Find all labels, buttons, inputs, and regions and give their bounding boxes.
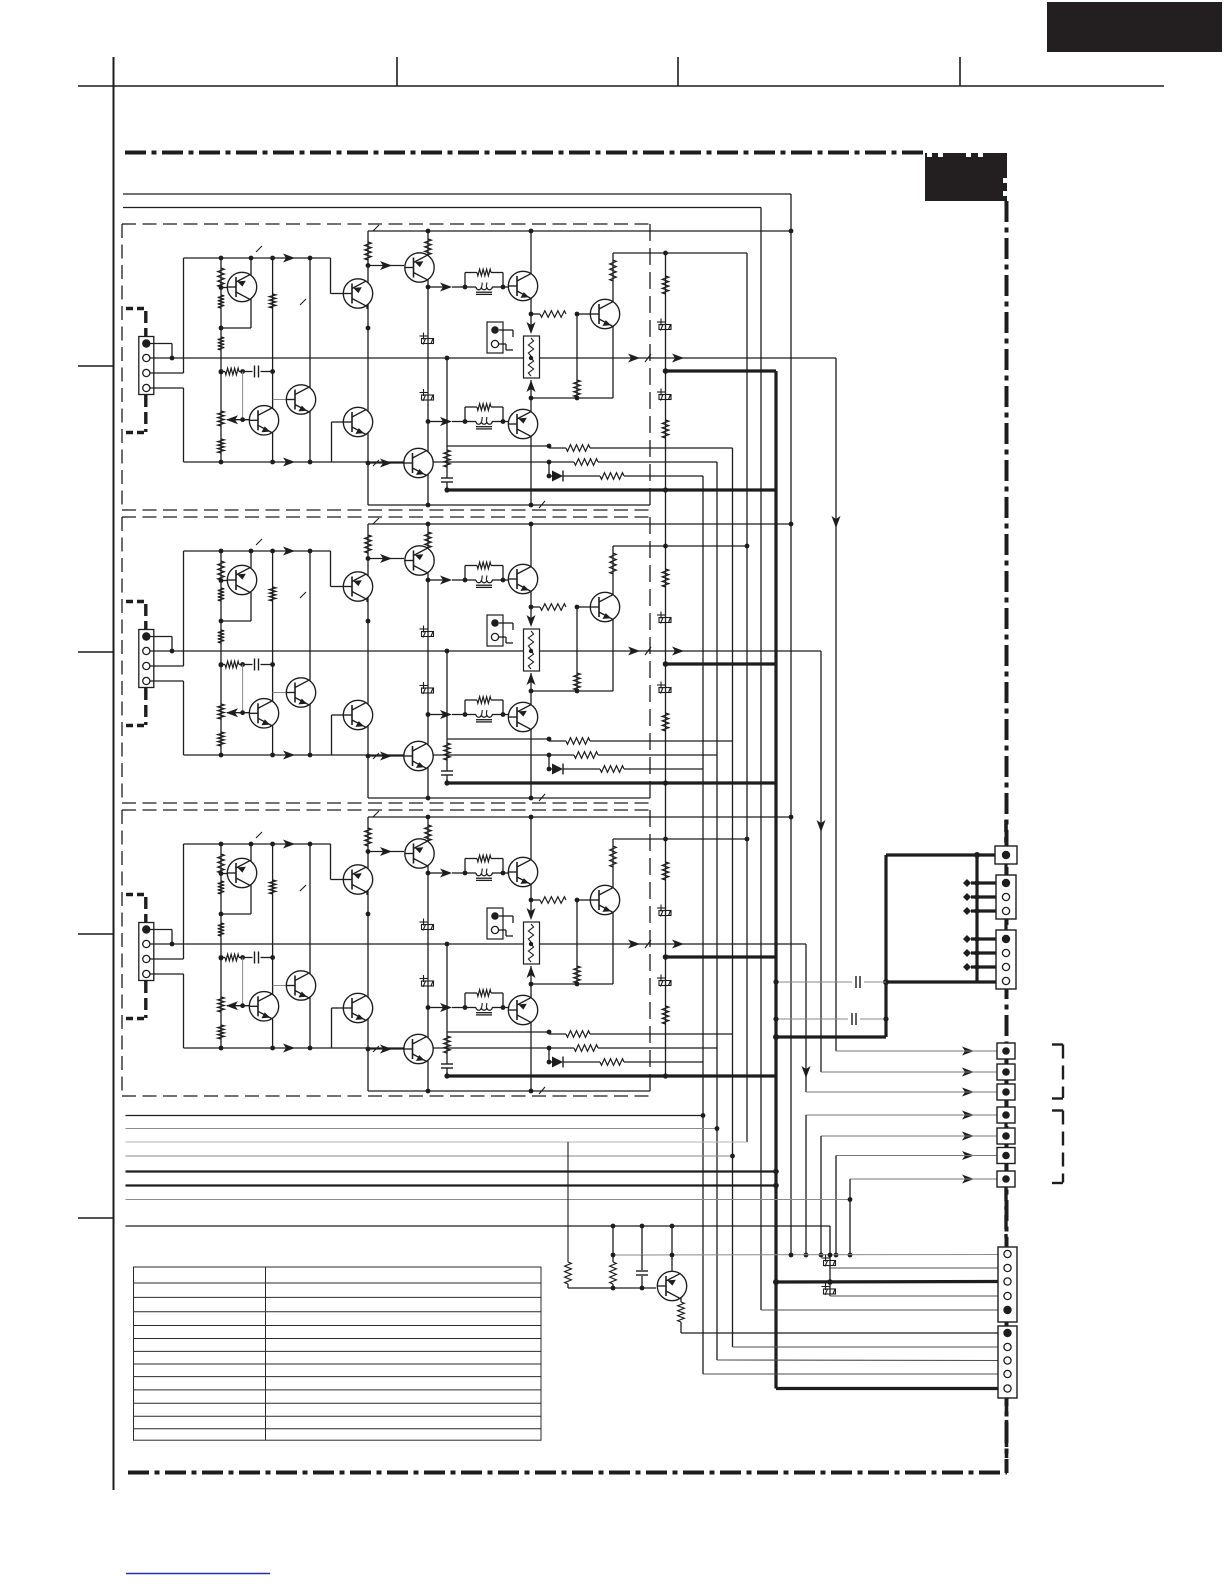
bus stub pin 6 <box>971 951 1000 954</box>
dash-dot stubs above/below connector groups <box>1004 820 1008 843</box>
signal wire to square connector 3 <box>806 1091 962 1093</box>
dash-dot below connector <box>1005 1398 1009 1473</box>
supply rail (top outer 1) <box>123 193 791 195</box>
square connector chain links <box>1004 1059 1007 1065</box>
distribution rail 1 <box>126 1115 704 1117</box>
bus stub pin 7 <box>971 965 1000 968</box>
bus stub pin 4 <box>971 909 1000 912</box>
junction x791/y524 <box>789 522 794 527</box>
channel1 output rail ext <box>660 357 836 359</box>
rail8 tie to Q30 <box>671 1226 673 1255</box>
rail8 tie to C30 <box>641 1226 643 1255</box>
junction y1255 x791 <box>789 1253 794 1258</box>
distribution rail 7 <box>126 1199 851 1201</box>
Q30 emitter out <box>680 1322 682 1333</box>
speaker line column x665 <box>665 253 667 1076</box>
connector CN-B (3 pin) <box>996 875 1016 919</box>
tick mark left 2 <box>78 651 114 653</box>
signal wire to square connector 2 <box>821 1071 962 1073</box>
parts table <box>134 1267 542 1440</box>
fusible column x830 <box>829 1226 831 1296</box>
bus stub pin 5 <box>971 937 1000 940</box>
signal wire to square connector 7 <box>850 1178 962 1180</box>
page number black box (top right) <box>1047 2 1222 52</box>
channel 2 amplifier block <box>122 517 791 803</box>
distribution rail 2 <box>126 1128 718 1130</box>
harness bracket 1 (dashed) <box>1052 1045 1063 1099</box>
tick mark top 3 <box>677 57 679 86</box>
page column rule (left vertical) <box>113 57 115 1490</box>
base row wire <box>568 1287 656 1289</box>
bottom connector CN-D <box>998 1247 1017 1322</box>
Q30 collector lead <box>671 1255 673 1272</box>
thick wire to pin 1388 <box>776 1387 998 1390</box>
distribution rail 3 <box>126 1141 748 1143</box>
channel 1 amplifier block <box>122 224 791 510</box>
square connector 7 <box>997 1171 1015 1187</box>
page top rule <box>78 85 1164 87</box>
resistor R30 <box>565 1262 572 1284</box>
square connector 3 <box>997 1084 1015 1100</box>
junction y1255 x613 <box>611 1253 616 1258</box>
cap row 1 <box>776 981 852 983</box>
junction y1255 x672 <box>670 1253 675 1258</box>
resistor R32 <box>678 1302 685 1322</box>
wire to pin 1296 <box>830 1295 998 1297</box>
riser to sq conn 5 <box>820 1136 822 1255</box>
bottom connector CN-E <box>998 1326 1017 1398</box>
signal wire to square connector 4 <box>806 1114 962 1116</box>
distribution rail 6 (heavy) <box>126 1184 777 1186</box>
bus riser x747 <box>746 253 748 1142</box>
fusible FR31 <box>822 1283 836 1295</box>
channel3 output riser <box>805 944 807 1092</box>
tick mark left 1 <box>78 365 114 367</box>
distribution rail 8 <box>126 1225 831 1227</box>
channel3 output rail ext <box>660 943 806 945</box>
fusible FR30 <box>822 1255 836 1267</box>
drop wire x568 <box>567 1142 569 1262</box>
connector CN-C (4 pin) <box>996 930 1016 989</box>
riser to sq conn 7 <box>849 1179 851 1255</box>
capacitor C30 <box>641 1255 643 1270</box>
thick row y1282 <box>776 1280 998 1284</box>
cap row 2 <box>776 1018 848 1020</box>
wire to pin 1360 <box>717 1359 998 1362</box>
resistor R31 <box>612 1255 614 1262</box>
square connector 1 <box>997 1043 1015 1059</box>
channel2 output riser <box>820 651 822 1072</box>
square connector 2 <box>997 1064 1015 1080</box>
junction x791/y817 <box>789 815 794 820</box>
riser to sq conn 4 <box>805 1115 807 1255</box>
signal wire to square connector 5 <box>821 1135 962 1137</box>
bus stub pin 3 <box>971 895 1000 898</box>
junction x830 y1282 <box>827 1279 833 1285</box>
thick row y982 <box>886 980 1001 983</box>
rail8 tie to R31 <box>612 1226 614 1255</box>
signal wire to square connector 1 <box>836 1050 962 1052</box>
connector CN-A (1 pin) <box>995 846 1017 864</box>
distribution rail 4 <box>126 1155 733 1157</box>
bus riser x703 <box>702 476 704 1374</box>
thick link between connectors <box>1004 864 1007 875</box>
junction x791/y231 <box>789 229 794 234</box>
junction y1255 x830 <box>828 1253 833 1258</box>
bus riser x732 <box>732 448 734 1347</box>
schematic sheet ref black box <box>925 153 1007 201</box>
square connector 5 <box>997 1128 1015 1144</box>
square connector 6 <box>997 1148 1015 1164</box>
channel 3 amplifier block <box>122 810 791 1096</box>
upper connector thick feed <box>886 853 1001 856</box>
signal wire to square connector 6 <box>836 1155 962 1157</box>
wire to pin 1347 <box>733 1346 999 1348</box>
distribution rail 5 (heavy) <box>126 1170 777 1172</box>
square connector 4 <box>997 1107 1015 1123</box>
tick mark top 2 <box>396 57 398 86</box>
junction y1288 x642 <box>640 1286 645 1291</box>
junction x747/y839 <box>745 837 750 842</box>
supply rail (top outer 2) <box>123 207 761 209</box>
wire to pin 1310 <box>761 1309 998 1311</box>
wire to pin 1268 <box>830 1267 998 1269</box>
bus riser x791 <box>790 197 792 1255</box>
bus riser x717 <box>716 462 718 1360</box>
harness bracket 2 (dashed) <box>1052 1111 1063 1184</box>
board outline dash-dot border top <box>125 151 925 155</box>
thick power bus x776 <box>774 371 777 1389</box>
riser to sq conn 6 <box>835 1156 837 1256</box>
bus riser x761 <box>760 208 762 1311</box>
channel2 output rail ext <box>660 650 821 652</box>
collector row wire <box>613 1254 998 1257</box>
tick mark left 3 <box>78 933 114 935</box>
transistor Q30 <box>657 1271 686 1300</box>
tick mark left 4 <box>78 1217 114 1219</box>
bus stub pin 2 <box>971 881 1000 884</box>
wire to pin 1374 <box>703 1373 998 1375</box>
Q30 emitter lead <box>680 1298 682 1302</box>
junction x776 y1037 <box>773 1034 779 1040</box>
junction x747/y546 <box>745 544 750 549</box>
tick mark top 4 <box>959 57 961 86</box>
board outline dash-dot border right <box>1005 201 1009 1473</box>
footer blue rule <box>126 1573 270 1575</box>
junction y1288 x613 <box>611 1286 616 1291</box>
channel1 output riser <box>835 358 837 1051</box>
board outline dash-dot border bottom <box>128 1471 1007 1475</box>
thick bus x977 <box>975 855 978 982</box>
